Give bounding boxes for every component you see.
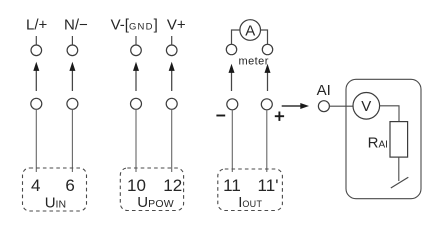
upper terminal circle, column L/+ (31, 45, 42, 56)
polarity plus (275, 115, 284, 117)
svg-text:V+: V+ (167, 16, 186, 33)
wire to pin 11 (231, 110, 233, 172)
svg-text:11': 11' (258, 176, 279, 195)
polarity minus (216, 115, 225, 117)
lower terminal circle, column L/+ (31, 98, 42, 109)
wire to pin 12 (171, 109, 173, 172)
wire to pin 4 (35, 109, 37, 172)
wire stub above terminal circle, column V+ (171, 36, 173, 45)
ammeter A (240, 20, 261, 41)
svg-text:4: 4 (31, 176, 40, 195)
upper terminal circle, column V-[GND] (131, 45, 142, 56)
node AI terminal circle (318, 101, 329, 112)
dashed terminal box UPOW (120, 168, 183, 211)
lower terminal circle, pin 11 (227, 99, 238, 110)
svg-text:10: 10 (127, 176, 146, 195)
wire voltmeter to resistor (380, 106, 399, 122)
meter terminal circle left (226, 44, 236, 54)
wire stub above terminal circle, column L/+ (35, 36, 37, 45)
lower terminal circle, column V+ (166, 98, 177, 109)
wire to pin 11' (266, 110, 268, 172)
lower terminal circle, column V-[GND] (131, 98, 142, 109)
wire below resistor (398, 157, 400, 181)
flow arrow, meter left (231, 71, 233, 91)
resistor RAI (390, 122, 408, 158)
dashed terminal box UIN (23, 168, 87, 211)
svg-text:V: V (361, 98, 371, 115)
wire ammeter left lead (232, 30, 240, 44)
upper terminal circle, column N/- (67, 45, 78, 56)
svg-text:12: 12 (163, 176, 182, 195)
wire AI to voltmeter (329, 105, 353, 107)
voltmeter V (353, 93, 380, 120)
svg-text:6: 6 (65, 176, 74, 195)
arrow to AI node (282, 105, 302, 107)
svg-text:A: A (245, 22, 255, 39)
wire stub above terminal circle, column N/- (71, 36, 73, 45)
lower terminal circle, pin 11' (261, 99, 272, 110)
svg-text:L/+: L/+ (26, 16, 48, 33)
meter terminal circle right (262, 44, 272, 54)
flow arrow, column V-[GND] (135, 69, 137, 91)
svg-text:meter: meter (239, 55, 269, 67)
svg-text:AI: AI (317, 82, 331, 99)
lower terminal circle, column N/- (67, 98, 78, 109)
wire to pin 6 (71, 109, 73, 172)
flow arrow, column V+ (171, 69, 173, 91)
wire stub above terminal circle, column V-[GND] (135, 36, 137, 45)
switch contact (391, 177, 409, 188)
dashed terminal box IOUT (218, 169, 283, 211)
svg-text:N/−: N/− (64, 16, 88, 33)
svg-text:11: 11 (223, 176, 241, 195)
device box (346, 79, 421, 198)
flow arrow, column L/+ (35, 69, 37, 91)
flow arrow, meter right (267, 71, 269, 91)
flow arrow, column N/- (71, 69, 73, 91)
wire ammeter right lead (261, 30, 268, 44)
upper terminal circle, column V+ (166, 45, 177, 56)
wire to pin 10 (135, 109, 137, 172)
